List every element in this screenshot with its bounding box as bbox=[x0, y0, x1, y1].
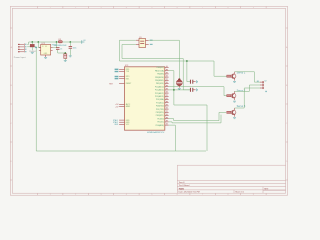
svg-text:ATMEGA328P-PU: ATMEGA328P-PU bbox=[147, 131, 165, 134]
svg-text:TODO: TODO bbox=[179, 188, 185, 190]
net flags at Q1 right pins bbox=[150, 40, 153, 45]
IC2 left pins bbox=[119, 69, 131, 126]
svg-text:Power Input: Power Input bbox=[14, 56, 26, 59]
svg-text:INT1: INT1 bbox=[126, 78, 130, 80]
fuse F1 bbox=[54, 39, 66, 47]
wire resonator loop 2 bbox=[122, 45, 190, 90]
svg-text:REV:: REV: bbox=[264, 188, 269, 190]
svg-text:PC3(ADC3): PC3(ADC3) bbox=[155, 95, 164, 98]
capacitor C2 bbox=[69, 42, 77, 55]
svg-text:RESET: RESET bbox=[126, 83, 132, 85]
svg-text:PC2(ADC2): PC2(ADC2) bbox=[155, 92, 164, 95]
wire MCU ground to rail bbox=[169, 125, 176, 151]
wire resonator loop 1 / T1 feed bbox=[120, 40, 227, 76]
svg-text:PD1(TXD): PD1(TXD) bbox=[156, 109, 164, 111]
ground below C2 bbox=[69, 56, 72, 57]
svg-text:PC5(SCL): PC5(SCL) bbox=[156, 102, 164, 104]
svg-text:VI VO: VI VO bbox=[42, 46, 48, 48]
title block bbox=[177, 165, 285, 193]
wire T2 base feed bbox=[169, 87, 227, 96]
svg-text:PC1(ADC1): PC1(ADC1) bbox=[155, 89, 164, 92]
svg-text:Date: 4/12/2015 9:14 PM: Date: 4/12/2015 9:14 PM bbox=[179, 191, 200, 194]
ground below Q2 bbox=[233, 82, 236, 83]
wire long ground left vertical bbox=[35, 47, 37, 151]
svg-text:PB4(MISO): PB4(MISO) bbox=[155, 80, 164, 82]
border frame bbox=[10, 6, 287, 195]
svg-text:PB0(ICP): PB0(ICP) bbox=[157, 67, 165, 69]
wire Q4 collector out bbox=[235, 88, 261, 108]
svg-text:Q1: Q1 bbox=[139, 37, 142, 39]
svg-text:PD0(RXD): PD0(RXD) bbox=[156, 106, 164, 108]
ground right of C6 bbox=[197, 88, 198, 91]
wire main rail bbox=[27, 42, 82, 44]
svg-text:PB1(OC1A): PB1(OC1A) bbox=[155, 69, 164, 72]
capacitor C1 electrolytic bbox=[64, 52, 67, 60]
connector X2 servos bbox=[260, 81, 264, 89]
svg-text:Sheet: 1/1: Sheet: 1/1 bbox=[235, 191, 244, 194]
wire gnd run from connector bbox=[27, 46, 36, 48]
wire Q3 collector out bbox=[235, 85, 261, 91]
transistor Q4 bbox=[231, 108, 236, 117]
svg-text:PB3(MOSI): PB3(MOSI) bbox=[155, 77, 164, 79]
capacitor C5 bbox=[190, 80, 195, 84]
svg-text:PD6(AIN0): PD6(AIN0) bbox=[156, 124, 165, 127]
ground below IC1 bbox=[44, 58, 47, 59]
wire parallel run below bbox=[169, 115, 221, 123]
svg-text:PB5(SCK): PB5(SCK) bbox=[156, 83, 164, 85]
transistor Q2 bbox=[231, 72, 236, 81]
wire regulator output to rail bbox=[53, 42, 57, 48]
diode D1 bbox=[29, 42, 37, 53]
svg-text:PC0(ADC0): PC0(ADC0) bbox=[155, 85, 164, 88]
svg-text:PD3(INT1): PD3(INT1) bbox=[156, 115, 165, 117]
resistor R1 bbox=[227, 75, 231, 77]
wire MCU pin to right column bbox=[169, 71, 207, 151]
svg-text:The K-Board: The K-Board bbox=[179, 184, 190, 187]
svg-text:Timo K.: Timo K. bbox=[179, 182, 186, 184]
resonator Q1 16MHz bbox=[136, 37, 149, 48]
svg-text:C3: C3 bbox=[60, 49, 62, 51]
wire long ground bottom horizontal bbox=[36, 150, 206, 152]
capacitor C6 bbox=[190, 88, 195, 92]
svg-text:AREF: AREF bbox=[126, 105, 131, 108]
ground below C1 bbox=[64, 61, 67, 62]
speaker SP1 bbox=[176, 78, 182, 87]
svg-text:PD5(T1): PD5(T1) bbox=[157, 122, 164, 124]
svg-text:PC4(SDA): PC4(SDA) bbox=[156, 98, 164, 101]
svg-text:PD4(T0): PD4(T0) bbox=[157, 118, 164, 120]
ground below Q4 bbox=[233, 118, 236, 119]
svg-text:PB2(SS): PB2(SS) bbox=[157, 74, 164, 76]
transistor Q3 bbox=[231, 91, 236, 100]
ground below Q3 bbox=[233, 101, 236, 102]
capacitor C3 bbox=[56, 47, 65, 53]
junction rail nodes bbox=[31, 41, 33, 43]
wire C6 feed from MCU bbox=[169, 89, 190, 91]
svg-text:PD2(INT0): PD2(INT0) bbox=[156, 112, 165, 114]
ground below D1 bbox=[31, 53, 34, 54]
wire resonator to speaker bbox=[149, 40, 180, 79]
microcontroller IC2 ATMEGA328 bbox=[125, 65, 165, 130]
resistor R3 bbox=[227, 111, 231, 113]
net flags at IC2 upper-left pins bbox=[115, 69, 119, 80]
resistor R2 bbox=[227, 95, 231, 97]
connector X1 Power Input bbox=[18, 43, 26, 52]
supply +5V flag bbox=[82, 40, 85, 44]
net flag on servo1 wire bbox=[257, 81, 259, 82]
wire Q2 collector out bbox=[235, 72, 261, 82]
svg-text:MINISMDC050F: MINISMDC050F bbox=[54, 45, 66, 47]
svg-text:GND: GND bbox=[114, 124, 119, 126]
net label block bottom-left pins bbox=[113, 119, 119, 126]
ground below SP1 bbox=[178, 88, 181, 89]
IC2 right pins bbox=[155, 66, 169, 127]
wire T3 base feed bbox=[169, 112, 226, 120]
wire branch to C5 bbox=[187, 61, 190, 82]
ground right of C5 bbox=[197, 80, 198, 83]
voltage regulator IC1 7805 bbox=[38, 42, 56, 57]
svg-text:100n: 100n bbox=[73, 48, 77, 50]
